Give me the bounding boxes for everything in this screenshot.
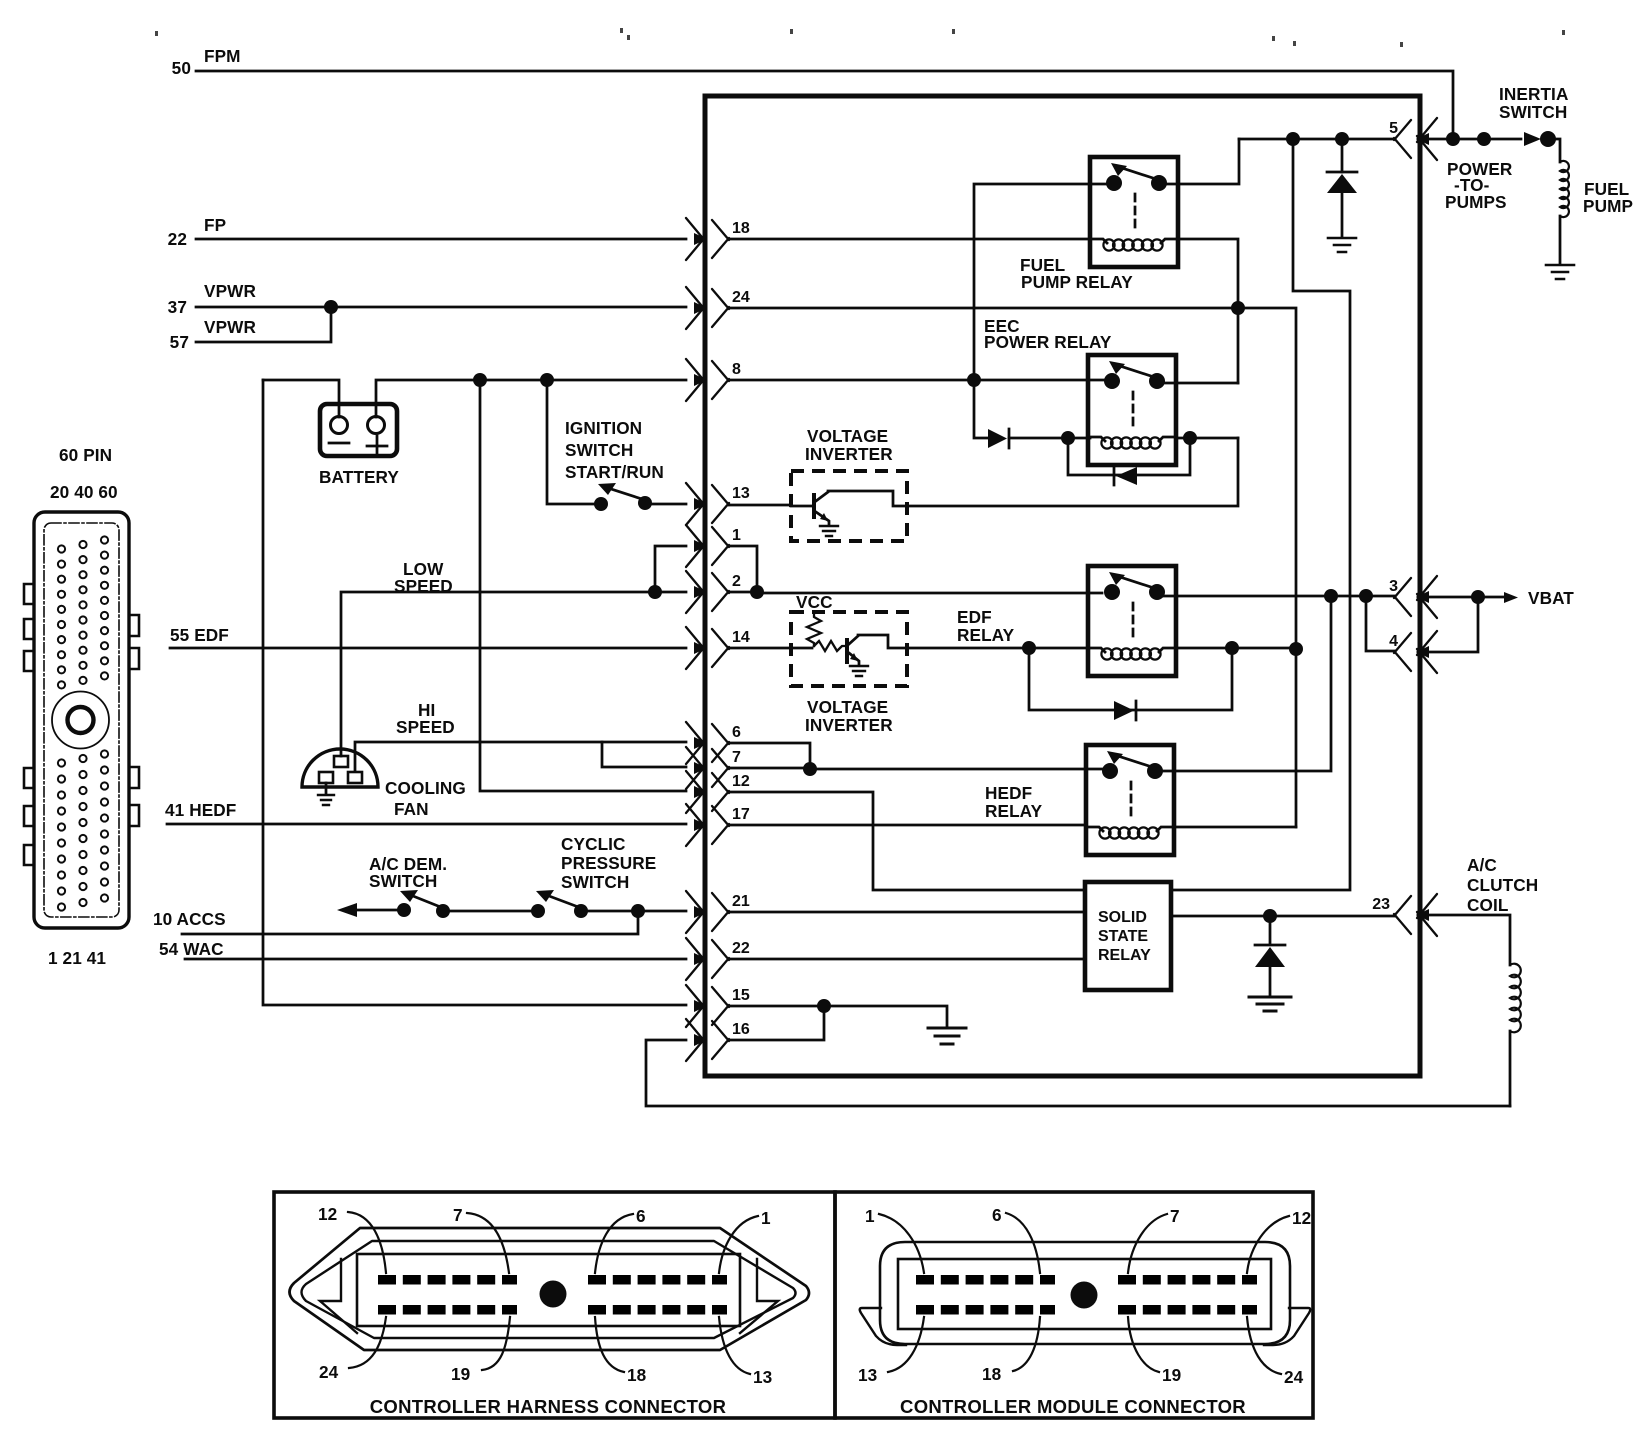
VCC voltage inverter U2 (dashed enclosure) <box>791 612 907 686</box>
svg-text:7: 7 <box>1170 1206 1180 1226</box>
junction VPWR 37/57 <box>324 300 338 314</box>
svg-text:5: 5 <box>1389 120 1398 137</box>
relay K4 HEDF relay box <box>1086 745 1174 855</box>
wire pin 16 to ground tie <box>729 1006 824 1040</box>
wire hi speed branch to pin 7 <box>602 742 686 767</box>
junction EEC coil / suppression loop <box>1183 431 1197 445</box>
junction VPWR / EEC relay switch feed <box>1231 301 1245 315</box>
relay switch contacts <box>1104 584 1120 600</box>
wire pin 14 to VCC voltage inverter <box>729 647 791 650</box>
wire fuel pump relay switch output to power-to-pumps <box>1162 139 1239 184</box>
pin 14 EDF <box>686 627 750 669</box>
svg-text:BATTERY: BATTERY <box>319 467 399 487</box>
wire EEC coil suppression loop <box>1068 438 1190 475</box>
svg-text:13: 13 <box>753 1367 772 1387</box>
junction low speed / pin1 jumper <box>648 585 662 599</box>
wire HEDF switch output up to VBAT line <box>1160 596 1331 771</box>
junction power line / clamp diode <box>1335 132 1349 146</box>
svg-text:57: 57 <box>170 332 189 352</box>
junction pins 15-16 ground tie <box>817 999 831 1013</box>
module pin 7 callout <box>1128 1206 1180 1273</box>
wire battery positive feed to pin 8 <box>376 380 686 417</box>
svg-text:60 PIN: 60 PIN <box>59 445 112 465</box>
wire ignition switch to pin 13 <box>652 503 686 506</box>
controller module connector figure frame <box>835 1192 1313 1418</box>
pin 8 BATT <box>686 359 741 401</box>
relay coil <box>1088 648 1176 652</box>
voltage inverter U1 (dashed enclosure) <box>791 471 907 541</box>
relay switch lever <box>1118 756 1155 768</box>
wire pin 7 to HEDF relay switch <box>729 768 1102 769</box>
svg-text:54 WAC: 54 WAC <box>159 939 224 959</box>
wire pin 17 to HEDF relay coil <box>729 824 1086 827</box>
svg-text:INVERTER: INVERTER <box>805 715 893 735</box>
wire VCC inverter output to EDF relay coil <box>907 647 1088 650</box>
wire battery keep-alive to pin 12 <box>480 380 686 791</box>
wire EDF to pin 14 <box>170 647 686 650</box>
ignition switch label <box>565 418 664 482</box>
junction battery feed / cooling-fan keep-alive branch <box>473 373 487 387</box>
harness pin 1 callout <box>719 1208 771 1273</box>
module connector shell wings <box>860 1308 1311 1345</box>
wire VPWR down to relay coils <box>1295 650 1298 827</box>
harness pin 19 callout <box>451 1317 510 1384</box>
svg-text:CONTROLLER HARNESS CONNECTOR: CONTROLLER HARNESS CONNECTOR <box>370 1396 727 1417</box>
label LOW SPEED <box>394 559 453 596</box>
resistor R2 base <box>814 641 845 651</box>
pin 6 <box>686 722 741 764</box>
node 50 FPM label <box>172 46 241 78</box>
node 22 FP label <box>168 215 227 249</box>
svg-text:13: 13 <box>732 485 750 502</box>
diode CR4 EDF coil suppression <box>1114 701 1134 720</box>
ground fuel pump <box>1546 265 1574 279</box>
relay switch contacts <box>1104 373 1120 389</box>
svg-text:24: 24 <box>1284 1367 1304 1387</box>
svg-text:VOLTAGE: VOLTAGE <box>807 426 888 446</box>
junction power line / SSR supply branch <box>1286 132 1300 146</box>
svg-text:A/C: A/C <box>1467 855 1497 875</box>
ground signal return <box>928 1028 966 1044</box>
svg-text:CONTROLLER MODULE CONNECTOR: CONTROLLER MODULE CONNECTOR <box>900 1396 1246 1417</box>
wire pin 8 to EEC power relay switch <box>729 379 1106 382</box>
wire ACCS to A/C switch net <box>182 915 638 934</box>
wire pin 13 to voltage inverter <box>729 504 791 507</box>
pin 13 IGN <box>686 483 750 525</box>
relay K1 fuel pump relay box <box>1090 157 1178 267</box>
junction SSR output / clamp diode <box>1263 909 1277 923</box>
relay coil <box>1088 437 1176 441</box>
wire pin 21 to solid state relay <box>729 911 1085 914</box>
label INERTIA SWITCH <box>1499 84 1568 122</box>
wire pin 5 to inertia switch <box>1418 138 1521 141</box>
wire pin 22 to solid state relay <box>729 958 1085 961</box>
wire WAC to pin 22 <box>185 958 686 961</box>
wire EDF coil right lead <box>1176 647 1296 650</box>
harness connector pin field <box>357 1254 740 1326</box>
wire EEC relay switch output <box>1162 382 1238 385</box>
ground transistor Q2 emitter <box>850 666 868 676</box>
svg-text:4: 4 <box>1389 633 1398 650</box>
harness connector shell latch wings <box>320 1259 778 1333</box>
svg-text:17: 17 <box>732 806 750 823</box>
svg-text:IGNITION: IGNITION <box>565 418 642 438</box>
wire left rail (battery return) down to pin 15 <box>263 380 686 1005</box>
controller box (EEC module outline) <box>705 96 1420 1076</box>
relay switch lever <box>1122 168 1159 180</box>
harness pin 13 callout <box>719 1317 772 1387</box>
wire pin14 into inverter <box>791 647 812 650</box>
harness pin 7 callout <box>453 1205 509 1273</box>
svg-text:7: 7 <box>732 749 741 766</box>
svg-text:55 EDF: 55 EDF <box>170 625 229 645</box>
HEDF relay label <box>985 783 1043 821</box>
diode CR1 clamp to ground <box>1341 139 1344 172</box>
diode CR5 clamp on A/C clutch drive <box>1269 916 1272 944</box>
wire low speed winding to pins 1/2 <box>341 592 650 756</box>
voltage inverter U2 label <box>805 697 893 735</box>
wire pin 24 VPWR bus <box>729 308 1296 650</box>
wire pin 12 to solid state relay <box>729 792 1085 890</box>
diode CR2 EEC coil suppression <box>1116 467 1137 485</box>
junction ACCS / switch chain <box>631 904 645 918</box>
node 37 VPWR label <box>168 281 257 317</box>
junction VBAT pins 3/4 <box>1471 590 1485 604</box>
relay switch contacts <box>1106 175 1122 191</box>
pin 4 VBAT <box>1389 631 1437 673</box>
wire inertia switch to fuel pump <box>1548 139 1560 162</box>
module connector pin field <box>898 1259 1271 1329</box>
wire to pin 2 <box>655 591 686 594</box>
junction power-to-pumps connector <box>1477 132 1491 146</box>
resistor R1 pull-up <box>807 614 821 646</box>
wire HEDF coil right lead to VPWR bus <box>1174 826 1296 829</box>
label POWER-TO-PUMPS <box>1445 159 1513 212</box>
pin 16 GND <box>686 1019 750 1061</box>
svg-text:13: 13 <box>858 1365 877 1385</box>
svg-text:18: 18 <box>627 1365 647 1385</box>
pin 2 <box>686 571 741 613</box>
wire EEC relay coil right lead <box>1178 437 1238 440</box>
junction VPWR / EDF coil <box>1289 642 1303 656</box>
pin 17 HEDF <box>686 804 750 846</box>
label A/C DEM. SWITCH <box>369 854 447 891</box>
harness pin 6 callout <box>595 1206 646 1273</box>
svg-text:FPM: FPM <box>204 46 241 66</box>
svg-text:VPWR: VPWR <box>204 281 256 301</box>
svg-text:RELAY: RELAY <box>985 801 1043 821</box>
svg-text:PUMP: PUMP <box>1583 196 1633 216</box>
wire battery to ignition switch <box>547 380 594 504</box>
svg-text:STATE: STATE <box>1098 928 1148 945</box>
wire battery negative to left rail <box>263 380 339 417</box>
svg-text:12: 12 <box>732 773 750 790</box>
relay coil <box>1086 827 1174 831</box>
60 PIN pin holes lower block <box>58 759 65 766</box>
svg-text:PUMP RELAY: PUMP RELAY <box>1021 272 1133 292</box>
relay coil <box>1090 239 1178 243</box>
pin 5 POWER-TO-PUMPS <box>1389 118 1437 160</box>
svg-text:16: 16 <box>732 1021 750 1038</box>
harness connector index post <box>540 1281 567 1308</box>
wire jumper to pin 1 <box>655 546 686 592</box>
svg-text:FP: FP <box>204 215 226 235</box>
A/C demand switch S2 <box>397 890 450 918</box>
60 PIN side tabs <box>24 584 34 604</box>
wire A/C clutch return to pin 16 <box>646 1040 1510 1106</box>
svg-text:SPEED: SPEED <box>396 717 455 737</box>
pin 22 WAC <box>686 938 750 980</box>
svg-text:14: 14 <box>732 629 750 646</box>
svg-text:1: 1 <box>865 1206 875 1226</box>
wire pin8 branch through series diode to EEC coil <box>974 380 1090 438</box>
wire VPWR 57 joins 37 <box>196 309 331 342</box>
svg-text:7: 7 <box>453 1205 463 1225</box>
svg-text:SWITCH: SWITCH <box>565 440 633 460</box>
junction pins 1-2 jumper <box>750 585 764 599</box>
svg-text:50: 50 <box>172 58 191 78</box>
wire FP to pin 18 <box>196 238 686 241</box>
pin 3 VBAT <box>1389 576 1437 618</box>
wire to pin 21 <box>587 910 686 913</box>
svg-text:VCC: VCC <box>796 592 833 612</box>
junction battery feed / ignition branch <box>540 373 554 387</box>
label FUEL PUMP <box>1583 179 1633 216</box>
label A/C CLUTCH COIL <box>1467 855 1538 915</box>
svg-text:RELAY: RELAY <box>1098 947 1151 964</box>
svg-text:18: 18 <box>982 1364 1002 1384</box>
ignition switch S1 START/RUN <box>594 483 652 511</box>
wire hi speed winding to pin 6 <box>355 742 686 771</box>
svg-text:19: 19 <box>451 1364 470 1384</box>
module connector index post <box>1071 1282 1098 1309</box>
wire pin 3 to VBAT <box>1418 596 1472 599</box>
ground fan <box>325 783 328 794</box>
svg-text:EDF: EDF <box>957 607 992 627</box>
battery B1 <box>320 404 397 456</box>
svg-text:19: 19 <box>1162 1365 1181 1385</box>
svg-text:37: 37 <box>168 297 187 317</box>
svg-text:SWITCH: SWITCH <box>1499 102 1567 122</box>
wire A/C clutch coil return <box>1509 1031 1512 1106</box>
svg-text:CLUTCH: CLUTCH <box>1467 875 1538 895</box>
svg-text:1 21 41: 1 21 41 <box>48 948 106 968</box>
harness pin 18 callout <box>595 1317 647 1385</box>
label CYCLIC PRESSURE SWITCH <box>561 834 656 892</box>
60 PIN pin holes upper block <box>58 545 65 552</box>
pin 18 FP <box>686 218 750 260</box>
relay switch contacts <box>1102 763 1118 779</box>
wire HEDF to pin 17 <box>167 823 686 826</box>
voltage inverter U1 label <box>805 426 893 464</box>
module pin 19 callout <box>1128 1317 1181 1385</box>
pin 24 VPWR <box>686 287 750 329</box>
svg-text:8: 8 <box>732 361 741 378</box>
cooling fan motor M1 <box>302 749 378 787</box>
node VBAT arrow <box>1484 596 1504 599</box>
svg-text:22: 22 <box>732 940 750 957</box>
module connector pins row top <box>916 1275 1257 1285</box>
60 PIN connector body <box>34 512 129 928</box>
svg-text:15: 15 <box>732 987 750 1004</box>
module pin 1 callout <box>865 1206 924 1273</box>
junction EDF coil suppression loop left <box>1022 641 1036 655</box>
module pin 6 callout <box>992 1205 1040 1273</box>
relay K3 EDF relay box <box>1088 566 1176 676</box>
svg-text:1: 1 <box>761 1208 771 1228</box>
module pin 13 callout <box>858 1317 924 1385</box>
wire FPM from pin 50 to power-to-pumps node <box>196 71 1453 139</box>
junction pins 6-7 <box>803 762 817 776</box>
svg-text:HEDF: HEDF <box>985 783 1032 803</box>
wire pins 1-2 inside jumper <box>729 546 757 592</box>
pin 12 <box>686 771 750 813</box>
svg-text:START/RUN: START/RUN <box>565 462 664 482</box>
scan specks <box>155 28 1565 47</box>
wire EDF coil suppression loop <box>1029 648 1232 710</box>
svg-text:22: 22 <box>168 229 187 249</box>
svg-text:24: 24 <box>732 289 750 306</box>
wire to A/C system (arrow) <box>337 903 357 917</box>
svg-text:2: 2 <box>732 573 741 590</box>
svg-text:CYCLIC: CYCLIC <box>561 834 626 854</box>
svg-text:SWITCH: SWITCH <box>369 871 437 891</box>
svg-text:COOLING: COOLING <box>385 778 466 798</box>
svg-text:VOLTAGE: VOLTAGE <box>807 697 888 717</box>
EDF relay label <box>957 607 1015 645</box>
svg-text:SOLID: SOLID <box>1098 909 1147 926</box>
svg-text:PRESSURE: PRESSURE <box>561 853 656 873</box>
pin 21 ACCS <box>686 891 750 933</box>
wire fuel pump to ground <box>1559 216 1562 263</box>
module pin 18 callout <box>982 1317 1040 1384</box>
svg-text:10 ACCS: 10 ACCS <box>153 909 226 929</box>
wire SSR supply branch <box>1171 139 1350 890</box>
svg-text:3: 3 <box>1389 578 1398 595</box>
60 PIN center post <box>52 692 109 749</box>
junction VBAT line / pin 4 branch <box>1359 589 1373 603</box>
svg-text:24: 24 <box>319 1362 339 1382</box>
fuel pump motor M2 <box>1560 161 1569 217</box>
relay switch lever <box>1120 366 1157 378</box>
wire fuel pump relay switch feed <box>974 184 1106 380</box>
svg-text:1: 1 <box>732 527 741 544</box>
harness connector pins row bottom <box>378 1305 727 1315</box>
wire pin 6 jumper to pin 7 line <box>729 743 810 769</box>
svg-text:41 HEDF: 41 HEDF <box>165 800 236 820</box>
solid state relay U3 <box>1085 882 1171 990</box>
harness connector pins row top <box>378 1275 727 1285</box>
wire power-to-pumps line to pin 5 <box>1239 138 1394 141</box>
svg-text:23: 23 <box>1372 896 1390 913</box>
wire EDF relay switch output to pins 3/4 (VBAT) <box>1161 595 1395 598</box>
module connector shell outline <box>880 1242 1290 1344</box>
ground transistor Q1 emitter <box>820 526 838 536</box>
wire pin 18 to fuel pump relay coil <box>729 238 1090 241</box>
svg-text:21: 21 <box>732 893 750 910</box>
label HI SPEED <box>396 700 455 737</box>
relay switch lever <box>1120 577 1157 589</box>
harness pin 12 callout <box>318 1204 386 1273</box>
svg-text:RELAY: RELAY <box>957 625 1015 645</box>
harness pin 24 callout <box>319 1317 386 1382</box>
wire VPWR 37 to pin 24 <box>196 306 686 309</box>
ground clamp diode CR5 <box>1249 997 1291 1011</box>
module pin 12 callout <box>1247 1208 1311 1273</box>
svg-text:FAN: FAN <box>394 799 429 819</box>
junction pin8 wire / fuel pump relay switch feed <box>967 373 981 387</box>
svg-text:VPWR: VPWR <box>204 317 256 337</box>
wire pin 2 to EDF relay switch <box>729 592 1102 593</box>
EEC power relay label <box>984 316 1112 352</box>
fuel pump relay label <box>1020 255 1133 292</box>
cooling fan label <box>385 778 466 819</box>
wire pin 4 inside jumper <box>1366 596 1395 651</box>
diode CR3 series feed to EEC coil <box>988 429 1007 448</box>
wire voltage inverter output to EEC relay coil <box>907 438 1238 506</box>
junction VBAT line / HEDF switch branch <box>1324 589 1338 603</box>
harness connector shell outline <box>290 1228 810 1350</box>
wire pin 23 to A/C clutch coil <box>1418 915 1510 965</box>
pin 15 GND <box>686 985 750 1027</box>
A/C clutch coil L1 <box>1510 964 1521 1033</box>
svg-text:INERTIA: INERTIA <box>1499 84 1568 104</box>
ground clamp diode CR1 <box>1328 238 1356 252</box>
svg-text:VBAT: VBAT <box>1528 588 1574 608</box>
wire fuel pump relay coil right to EEC switch <box>1178 239 1238 383</box>
pin 1 <box>686 525 741 567</box>
relay K2 EEC power relay box <box>1088 355 1176 465</box>
wire VBAT to pin 4 <box>1418 597 1478 652</box>
svg-text:12: 12 <box>1292 1208 1311 1228</box>
svg-text:SWITCH: SWITCH <box>561 872 629 892</box>
module connector pins row bottom <box>916 1305 1257 1315</box>
wire between switches <box>449 910 532 913</box>
wire SSR output to pin 23 <box>1171 915 1395 918</box>
svg-text:6: 6 <box>636 1206 646 1226</box>
svg-text:INVERTER: INVERTER <box>805 444 893 464</box>
svg-text:COIL: COIL <box>1467 895 1508 915</box>
svg-text:18: 18 <box>732 220 750 237</box>
svg-text:POWER RELAY: POWER RELAY <box>984 332 1112 352</box>
module pin 24 callout <box>1247 1317 1304 1387</box>
junction FPM / power-to-pumps <box>1446 132 1460 146</box>
inertia switch S4 <box>1524 132 1541 146</box>
controller harness connector figure frame <box>274 1192 835 1418</box>
svg-text:20 40 60: 20 40 60 <box>50 482 118 502</box>
svg-text:PUMPS: PUMPS <box>1445 192 1507 212</box>
svg-text:12: 12 <box>318 1204 337 1224</box>
node 57 VPWR label <box>170 317 257 352</box>
cyclic pressure switch S3 <box>531 890 588 918</box>
pin 7 <box>686 747 741 789</box>
svg-text:6: 6 <box>992 1205 1002 1225</box>
pin 23 A/C CLUTCH <box>1372 894 1437 936</box>
transistor Q1 <box>791 491 907 525</box>
transistor Q2 <box>845 635 907 665</box>
wire pin 15 to signal ground <box>729 1006 947 1026</box>
junction EEC coil left / suppression loop <box>1061 431 1075 445</box>
junction EDF coil / suppression right <box>1225 641 1239 655</box>
svg-text:6: 6 <box>732 724 741 741</box>
